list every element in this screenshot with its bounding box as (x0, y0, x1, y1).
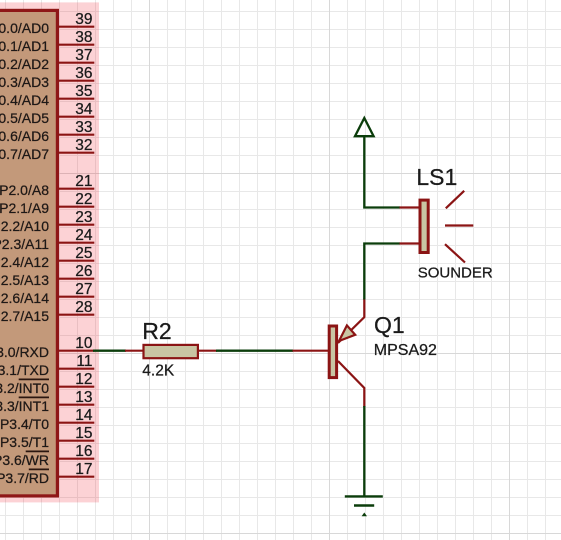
svg-text:R2: R2 (142, 318, 171, 344)
transistor Q1 base bar (329, 326, 336, 378)
svg-text:P0.3/AD3: P0.3/AD3 (0, 74, 49, 90)
svg-text:P0.7/AD7: P0.7/AD7 (0, 146, 49, 162)
svg-text:28: 28 (75, 299, 92, 316)
pin 25 stub (58, 260, 94, 262)
svg-text:P0.0/AD0: P0.0/AD0 (0, 20, 49, 36)
svg-text:P2.7/A15: P2.7/A15 (0, 308, 49, 324)
pin 28 stub (58, 314, 94, 316)
svg-text:14: 14 (75, 407, 93, 424)
overline INT0 (19, 378, 49, 380)
svg-text:P3.3/INT1: P3.3/INT1 (0, 398, 49, 414)
svg-text:SOUNDER: SOUNDER (418, 265, 493, 282)
resistor R2 left lead (125, 350, 143, 352)
svg-text:35: 35 (75, 83, 92, 100)
svg-text:P0.2/AD2: P0.2/AD2 (0, 56, 49, 72)
svg-text:4.2K: 4.2K (142, 363, 175, 380)
svg-text:23: 23 (75, 209, 92, 226)
svg-text:16: 16 (75, 443, 92, 460)
svg-text:P2.3/A11: P2.3/A11 (0, 236, 49, 252)
svg-text:P0.6/AD6: P0.6/AD6 (0, 128, 49, 144)
svg-text:P2.2/A10: P2.2/A10 (0, 218, 49, 234)
svg-text:LS1: LS1 (416, 164, 457, 190)
svg-text:26: 26 (75, 263, 92, 280)
svg-text:MPSA92: MPSA92 (374, 342, 437, 359)
pin 24 stub (58, 242, 94, 244)
svg-text:P0.4/AD4: P0.4/AD4 (0, 92, 49, 108)
wire LS1 bottom to Q1 emitter (364, 244, 400, 300)
pin 12 stub (58, 386, 94, 388)
svg-text:P0.5/AD5: P0.5/AD5 (0, 110, 49, 126)
pin 22 stub (58, 206, 94, 208)
pin 33 stub (58, 134, 94, 136)
svg-text:38: 38 (75, 29, 92, 46)
svg-text:36: 36 (75, 65, 92, 82)
svg-text:13: 13 (75, 389, 92, 406)
svg-text:P3.1/TXD: P3.1/TXD (0, 362, 49, 378)
pin 11 stub (58, 368, 94, 370)
pin 26 stub (58, 278, 94, 280)
pin 32 stub (58, 152, 94, 154)
pin 21 stub (58, 188, 94, 190)
svg-text:P2.4/A12: P2.4/A12 (0, 254, 49, 270)
wire R2 to Q1 base (216, 350, 293, 352)
svg-text:11: 11 (76, 353, 92, 370)
sounder LS1 body (420, 200, 428, 252)
pin 16 stub (58, 458, 94, 460)
svg-text:12: 12 (75, 371, 92, 388)
svg-text:P2.1/A9: P2.1/A9 (0, 200, 49, 216)
svg-text:P3.6/WR: P3.6/WR (0, 452, 49, 468)
wire Q1 collector to ground (363, 406, 365, 496)
pin 23 stub (58, 224, 94, 226)
svg-text:P2.6/A14: P2.6/A14 (0, 290, 49, 306)
LS1 top pin (400, 206, 420, 208)
Q1 emitter diagonal (338, 299, 364, 344)
wire pin10 to R2 (93, 350, 126, 352)
pin 27 stub (58, 296, 94, 298)
svg-text:P3.7/RD: P3.7/RD (0, 470, 49, 486)
svg-text:21: 21 (75, 173, 92, 190)
LS1 sound line top (446, 191, 464, 209)
pin 36 stub (58, 80, 94, 82)
svg-text:P3.4/T0: P3.4/T0 (0, 416, 49, 432)
pin 13 stub (58, 404, 94, 406)
LS1 bottom pin (400, 242, 420, 244)
overline INT1 (19, 396, 49, 398)
resistor R2 right lead (199, 350, 218, 352)
pin 10 stub (58, 350, 94, 352)
svg-text:22: 22 (75, 191, 92, 208)
pin 15 stub (58, 440, 94, 442)
svg-text:17: 17 (75, 461, 92, 478)
microcontroller U1 body (0, 10, 57, 496)
svg-text:27: 27 (75, 281, 92, 298)
svg-text:Q1: Q1 (374, 312, 405, 338)
svg-text:P2.0/A8: P2.0/A8 (0, 182, 49, 198)
svg-text:P3.0/RXD: P3.0/RXD (0, 344, 49, 360)
ground (345, 495, 383, 497)
Q1 base lead (293, 350, 330, 352)
svg-text:34: 34 (75, 101, 93, 118)
pin 38 stub (58, 44, 94, 46)
pin 17 stub (58, 476, 94, 478)
Q1 emitter arrow (339, 325, 355, 341)
svg-text:P3.5/T1: P3.5/T1 (0, 434, 49, 450)
svg-text:10: 10 (75, 335, 93, 352)
wire power to LS1 top (364, 137, 400, 208)
svg-text:15: 15 (75, 425, 92, 442)
power symbol VCC (355, 118, 374, 136)
overline WR (26, 450, 49, 452)
svg-text:33: 33 (75, 119, 92, 136)
pin 39 stub (58, 26, 94, 28)
svg-text:25: 25 (75, 245, 92, 262)
svg-text:24: 24 (75, 227, 93, 244)
svg-text:P3.2/INT0: P3.2/INT0 (0, 380, 49, 396)
LS1 sound line bottom (445, 244, 465, 262)
svg-text:39: 39 (75, 11, 92, 28)
microcontroller U1 selection highlight (0, 2, 99, 502)
svg-text:P0.1/AD1: P0.1/AD1 (0, 38, 49, 54)
svg-text:32: 32 (75, 137, 92, 154)
pin 14 stub (58, 422, 94, 424)
overline RD (29, 468, 49, 470)
LS1 sound line middle (445, 224, 473, 226)
svg-text:37: 37 (75, 47, 92, 64)
pin 37 stub (58, 62, 94, 64)
pin 35 stub (58, 98, 94, 100)
Q1 collector diagonal (338, 361, 364, 407)
resistor R2 body (144, 345, 198, 358)
svg-text:P2.5/A13: P2.5/A13 (0, 272, 49, 288)
pin 34 stub (58, 116, 94, 118)
